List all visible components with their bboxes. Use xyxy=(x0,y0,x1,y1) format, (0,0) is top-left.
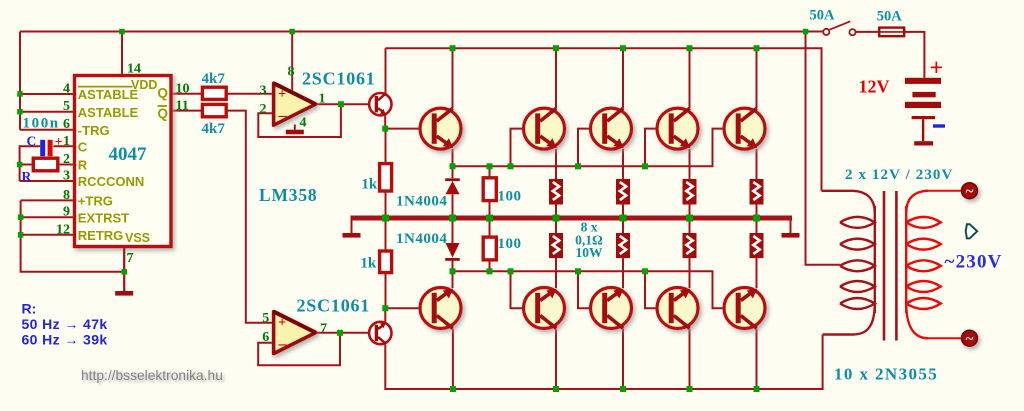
node bottom rail T13 xyxy=(754,386,760,392)
transistor 2N3055 bottom 1 xyxy=(420,288,461,329)
node rail T2 collector xyxy=(450,45,456,51)
wire base stub T4 xyxy=(578,129,591,167)
resistor 0.1R top 4 xyxy=(750,179,764,205)
svg-text:1: 1 xyxy=(319,91,326,106)
node pin 4 xyxy=(17,91,23,97)
wire pin 11 Qbar to 4k7 xyxy=(171,110,202,112)
wire pin 10 Q to 4k7 xyxy=(171,93,202,95)
wire T11 emitter xyxy=(622,258,624,288)
svg-text:100n: 100n xyxy=(23,116,60,132)
switch S1 50A xyxy=(823,21,855,35)
svg-text:8: 8 xyxy=(63,188,70,203)
wire 4k7 to lower opamp pin5 xyxy=(226,111,273,323)
svg-text:LM358: LM358 xyxy=(259,185,317,205)
wire T9 emitter xyxy=(452,271,454,288)
wire T10 emitter xyxy=(555,258,557,288)
wire lower base row xyxy=(453,271,725,308)
svg-text:VSS: VSS xyxy=(125,231,150,245)
svg-text:1k: 1k xyxy=(360,255,377,271)
node upper row T2 emitter xyxy=(450,163,456,169)
svg-text:5: 5 xyxy=(262,311,269,326)
transistor 2N3055 top 2 xyxy=(524,108,565,149)
resistor 0.1R bottom 4 xyxy=(750,233,764,258)
node rail T6 collector xyxy=(754,45,760,51)
ground at op-amp1 pin 4 xyxy=(286,125,304,135)
wire upper base row xyxy=(453,129,725,167)
AC output terminal top xyxy=(962,183,978,200)
svg-text:1N4004: 1N4004 xyxy=(396,231,447,247)
node upper row base T3 xyxy=(508,163,514,169)
wire 100R lower column xyxy=(489,218,491,271)
svg-text:3: 3 xyxy=(63,169,70,184)
wire pin 14 VDD xyxy=(121,32,123,76)
wire opamp2 feedback loop xyxy=(258,333,340,365)
svg-text:7: 7 xyxy=(127,251,134,266)
resistor R xyxy=(33,158,58,171)
wire 0R1 to bus c4 xyxy=(756,205,758,234)
svg-text:RETRG: RETRG xyxy=(78,228,124,243)
node lower row base T11 xyxy=(575,268,581,274)
wire +12V top rail xyxy=(20,31,823,33)
svg-text:+: + xyxy=(55,134,63,149)
node bus 100R xyxy=(486,215,493,222)
transistor 2N3055 bottom 5 xyxy=(724,288,765,329)
svg-text:EXTRST: EXTRST xyxy=(78,210,129,225)
svg-text:4k7: 4k7 xyxy=(202,71,226,87)
svg-text:4k7: 4k7 xyxy=(202,121,226,137)
wire node RC to R xyxy=(20,164,34,166)
diode D2 1N4004 xyxy=(445,243,460,261)
wire center tap column xyxy=(806,32,841,265)
wire T13 emitter xyxy=(756,258,758,288)
svg-text:10W: 10W xyxy=(576,245,604,260)
svg-text:6: 6 xyxy=(63,117,70,132)
wire pin 3 xyxy=(20,180,75,182)
wire T2 emitter xyxy=(452,149,454,167)
wire base stub T12 xyxy=(645,271,658,308)
node rail T4 collector xyxy=(620,45,626,51)
wire left column pins 4-5-6 xyxy=(19,32,21,130)
svg-text:Q: Q xyxy=(158,106,169,121)
svg-text:100: 100 xyxy=(498,236,522,252)
svg-text:+TRG: +TRG xyxy=(78,194,113,209)
node bottom rail T11 xyxy=(620,386,626,392)
wire T13 collector xyxy=(756,329,758,389)
node RC xyxy=(17,162,23,168)
wire bottom collector rail xyxy=(385,335,822,390)
wire capacitor to node RC xyxy=(20,146,40,181)
wire T8 emitter node to T9 base xyxy=(385,308,420,321)
svg-text:2SC1061: 2SC1061 xyxy=(297,296,371,316)
resistor 1k lower xyxy=(380,251,392,273)
node opamp2 output xyxy=(337,330,343,336)
ground bus right xyxy=(782,221,800,238)
wire T12 collector xyxy=(689,329,691,389)
wire T1 emitter xyxy=(384,115,386,129)
wire secondary top lead xyxy=(925,190,961,192)
svg-text:ASTABLE: ASTABLE xyxy=(78,105,139,120)
transformer core xyxy=(884,191,896,341)
wire pin 7 VSS xyxy=(123,247,125,292)
wire emitter bus thick xyxy=(351,216,793,221)
resistor 0.1R top 1 xyxy=(549,179,563,205)
wire opamp2 output xyxy=(316,332,370,334)
node opamp V+ on +12V rail xyxy=(289,29,295,35)
wire pin 6 xyxy=(20,129,75,131)
svg-text:10: 10 xyxy=(176,82,190,97)
svg-text:2: 2 xyxy=(63,152,70,167)
svg-text:RCCCONN: RCCCONN xyxy=(78,174,144,189)
node bottom rail T9 xyxy=(450,386,456,392)
node bus c2 xyxy=(620,215,627,222)
svg-text:5: 5 xyxy=(63,99,70,114)
wire pin 5 xyxy=(20,111,75,113)
node rail T5 collector xyxy=(687,45,693,51)
svg-text:+: + xyxy=(278,87,286,102)
svg-text:Q: Q xyxy=(158,86,169,101)
node upper row base T5 xyxy=(642,163,648,169)
svg-text:R:: R: xyxy=(22,301,37,317)
diode D1 1N4004 xyxy=(445,178,460,194)
svg-text:50A: 50A xyxy=(810,8,836,24)
resistor 0.1R top 3 xyxy=(683,179,697,205)
wire 0R1 to bus c1 xyxy=(555,205,557,234)
node bus c1 xyxy=(553,215,560,222)
wire collector rail upper xyxy=(386,48,822,191)
battery 12V xyxy=(905,78,941,146)
resistor 0.1R bottom 3 xyxy=(683,233,697,258)
svg-text:7: 7 xyxy=(320,321,327,336)
wire pin 9 xyxy=(21,216,75,218)
transistor 2N3055 top 3 xyxy=(591,108,632,149)
wire T4 emitter xyxy=(622,149,624,179)
svg-text:+: + xyxy=(278,316,286,331)
wire T11 collector xyxy=(622,329,624,389)
transistor 2N3055 bottom 4 xyxy=(657,288,698,329)
node pin 9 xyxy=(18,214,24,220)
output arrow symbol xyxy=(966,224,978,238)
wire base stub T11 xyxy=(578,271,591,308)
wire T6 collector xyxy=(756,48,758,108)
resistor 1k upper xyxy=(380,164,392,191)
svg-text:–: – xyxy=(278,107,288,124)
wire node to T2 base xyxy=(385,128,420,130)
svg-text:4: 4 xyxy=(63,82,70,97)
wire opamp1 V+ pin 8 xyxy=(291,32,293,93)
svg-text:~: ~ xyxy=(966,184,974,200)
svg-text:3: 3 xyxy=(260,84,267,99)
transistor Q1 2SC1061 xyxy=(369,93,391,115)
wire pin 12 xyxy=(21,234,75,236)
resistor R1 4k7 xyxy=(202,87,226,99)
wire R to pin 2 xyxy=(58,164,75,166)
svg-text:1k: 1k xyxy=(361,177,378,193)
transistor 2N3055 top 1 xyxy=(420,108,461,149)
svg-text:6: 6 xyxy=(262,330,269,345)
wire T5 emitter xyxy=(689,149,691,179)
transistor 2N3055 bottom 3 xyxy=(591,288,632,329)
wire T10 collector xyxy=(555,329,557,389)
svg-text:C: C xyxy=(27,134,37,149)
wire T12 emitter xyxy=(689,258,691,288)
node bus diode xyxy=(449,215,456,222)
wire opamp1 feedback loop xyxy=(258,104,341,137)
resistor 0.1R bottom 2 xyxy=(616,233,630,258)
node upper row 100R xyxy=(487,163,493,169)
fuse F1 50A xyxy=(879,28,904,37)
node bottom rail T10 xyxy=(553,386,559,392)
wire pins 8-9-12 column xyxy=(21,200,125,271)
svg-text:R: R xyxy=(78,158,88,173)
resistor 100 upper xyxy=(483,178,496,201)
transistor 2N3055 top 4 xyxy=(657,108,698,149)
svg-text:60 Hz → 39k: 60 Hz → 39k xyxy=(22,332,108,348)
wire base stub T3 xyxy=(511,129,525,167)
wire base stub T10 xyxy=(511,271,525,308)
wire pin 1 to capacitor xyxy=(53,145,74,147)
wire lower diode D2 column xyxy=(452,218,454,271)
node bus c4 xyxy=(753,215,760,222)
svg-text:ASTABLE: ASTABLE xyxy=(78,87,139,102)
node bus 1k xyxy=(382,215,389,222)
overline first ASTABLE xyxy=(78,86,133,88)
transistor 2N3055 bottom 2 xyxy=(524,288,565,329)
wire pin 8 xyxy=(21,199,75,201)
node lower row base T10 xyxy=(508,268,514,274)
svg-text:9: 9 xyxy=(63,205,70,220)
wire opamp1 output xyxy=(316,103,369,105)
wire T3 emitter xyxy=(555,149,557,179)
resistor R2 4k7 xyxy=(202,104,226,116)
wire pin 4 xyxy=(20,93,75,95)
node lower row base T12 xyxy=(642,268,648,274)
wire T4 collector xyxy=(622,48,624,108)
wire T1 collector xyxy=(385,48,387,93)
wire T2 collector xyxy=(452,48,454,108)
wire T3 collector xyxy=(555,48,557,108)
svg-text:1N4004: 1N4004 xyxy=(396,194,447,210)
node pin 5 xyxy=(17,109,23,115)
node bus c3 xyxy=(686,215,693,222)
node bottom rail T12 xyxy=(687,386,693,392)
wire T5 collector xyxy=(689,48,691,108)
node rail T3 collector xyxy=(553,45,559,51)
transformer secondary coil xyxy=(906,191,941,339)
svg-text:http://bsselektronika.hu: http://bsselektronika.hu xyxy=(81,368,223,383)
svg-text:50 Hz → 47k: 50 Hz → 47k xyxy=(22,316,108,332)
node lower row T9 emitter xyxy=(450,268,456,274)
node center tap on +12V rail xyxy=(803,29,809,35)
svg-text:4: 4 xyxy=(300,116,307,131)
wire T6 emitter xyxy=(756,149,758,179)
node pin 7 ground xyxy=(122,269,128,275)
svg-text:100: 100 xyxy=(498,189,522,205)
ground bus left xyxy=(343,221,361,238)
svg-text:-TRG: -TRG xyxy=(78,123,110,138)
wire 0R1 to bus c2 xyxy=(622,205,624,234)
IC U2 4047 body xyxy=(75,76,172,247)
wire lower 1k to bus xyxy=(385,221,387,309)
svg-text:50A: 50A xyxy=(877,8,903,24)
node opamp1 output xyxy=(338,101,344,107)
svg-text:14: 14 xyxy=(127,62,141,77)
AC output terminal bottom xyxy=(962,330,978,347)
wire secondary bottom lead xyxy=(925,337,961,339)
wire 0R1 to bus c3 xyxy=(689,205,691,234)
wire node through 1k to bus xyxy=(385,129,387,218)
node pin14 on +12V rail xyxy=(119,29,125,35)
wire diode D1 column xyxy=(452,166,454,218)
svg-text:8: 8 xyxy=(288,65,295,80)
svg-text:2: 2 xyxy=(260,102,267,117)
node pin 12 xyxy=(18,232,24,238)
svg-text:10 x 2N3055: 10 x 2N3055 xyxy=(834,365,938,384)
overline Qbar xyxy=(158,105,168,107)
svg-text:2 x 12V / 230V: 2 x 12V / 230V xyxy=(845,167,953,183)
resistor 0.1R bottom 1 xyxy=(549,233,563,258)
svg-text:C: C xyxy=(78,140,88,155)
transistor 2N3055 top 5 xyxy=(724,108,765,149)
ground at pin 7 xyxy=(115,247,133,296)
node upper row base T4 xyxy=(575,163,581,169)
svg-text:12: 12 xyxy=(56,222,70,237)
svg-text:1: 1 xyxy=(63,134,70,149)
op-amp U1a LM358 xyxy=(274,83,316,125)
battery minus xyxy=(933,124,945,127)
resistor 100 lower xyxy=(483,237,496,260)
svg-text:–: – xyxy=(278,336,288,353)
wire 100R upper column xyxy=(489,166,491,218)
resistor 0.1R top 2 xyxy=(616,179,630,205)
wire T9 collector xyxy=(452,329,454,389)
capacitor C 100n xyxy=(40,140,52,156)
svg-text:4047: 4047 xyxy=(109,144,148,165)
svg-text:R: R xyxy=(22,169,32,184)
wire battery feed xyxy=(856,32,925,78)
node T1 emitter xyxy=(382,126,388,132)
svg-text:+: + xyxy=(930,56,944,82)
transformer primary coil xyxy=(822,191,875,335)
transistor Q2 2SC1061 xyxy=(369,322,391,344)
svg-text:11: 11 xyxy=(176,98,189,113)
svg-text:12V: 12V xyxy=(859,77,890,97)
svg-text:2SC1061: 2SC1061 xyxy=(302,68,376,88)
node T8 emitter xyxy=(382,305,388,311)
svg-text:~: ~ xyxy=(966,332,974,348)
op-amp U1b LM358 xyxy=(274,312,316,354)
wire 4k7 to opamp pin3 xyxy=(226,93,273,95)
wire base stub T5 xyxy=(645,129,658,167)
svg-text:~230V: ~230V xyxy=(945,252,1003,273)
node lower row 100R xyxy=(487,268,493,274)
